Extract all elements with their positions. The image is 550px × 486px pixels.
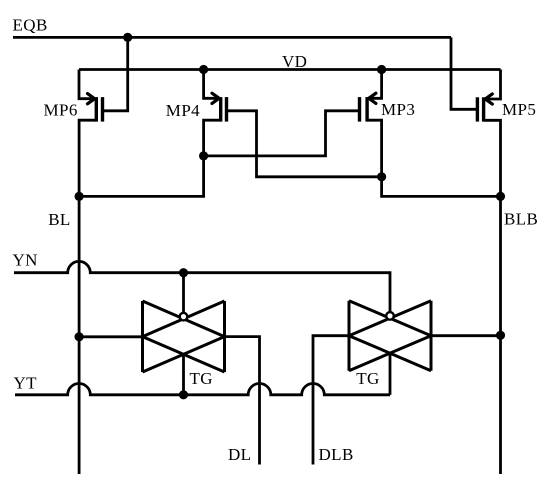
transistor MP5 source arrow: [485, 94, 492, 104]
wire BLB vertical: [499, 196, 502, 474]
svg-text:YT: YT: [14, 373, 38, 392]
transistor MP3 source lead: [372, 70, 382, 99]
transmission gate TG1 left edge: [141, 301, 144, 372]
transmission gate TG2 diagonals: [349, 301, 431, 371]
node EQB junction: [123, 33, 132, 42]
node MP4 drain junction: [199, 151, 208, 160]
TG2 nmos gate stem: [389, 353, 392, 395]
transistor MP3 source arrow: [369, 93, 376, 103]
transmission gate TG1 right edge: [223, 301, 226, 372]
transistor MP5 source lead: [488, 70, 501, 100]
transmission gate TG1 diagonals: [143, 301, 225, 372]
wire BL vertical: [78, 196, 81, 474]
node MP3 drain junction: [377, 172, 386, 181]
wire EQB right drop to MP5 gate: [451, 37, 476, 109]
node BLB junction with MP3 drain wire: [496, 192, 505, 201]
node BL junction with MP4 drain wire: [75, 192, 84, 201]
wire EQB branch to MP6 gate: [103, 37, 128, 110]
transistor MP6 source arrow: [88, 94, 95, 104]
svg-text:TG: TG: [190, 369, 213, 388]
transistor MP3 channel bar: [365, 97, 368, 122]
transmission gate TG2 right edge: [430, 301, 433, 371]
wire TG1 right terminal to DL: [225, 337, 260, 465]
node BLB-TG2 junction: [496, 331, 505, 340]
svg-text:YN: YN: [13, 250, 38, 269]
wire MP4 gate to MP3 drain (cross-couple B): [227, 111, 382, 177]
wire YN horizontal with hop over BL: [14, 261, 390, 313]
svg-text:MP4: MP4: [166, 101, 200, 120]
TG1 nmos gate stem: [182, 354, 185, 394]
svg-text:TG: TG: [356, 369, 379, 388]
svg-text:MP5: MP5: [502, 100, 536, 119]
svg-text:MP6: MP6: [44, 101, 78, 120]
svg-text:MP3: MP3: [381, 100, 415, 119]
transistor MP4 source arrow: [212, 93, 219, 103]
transistor MP5 drain lead: [484, 120, 501, 196]
transistor MP3 drain lead down to BLB: [367, 120, 500, 196]
TG1 pmos bubble: [180, 313, 188, 321]
wire EQB horizontal rail: [13, 36, 451, 39]
TG2 pmos bubble: [386, 312, 394, 320]
svg-text:DLB: DLB: [319, 445, 354, 464]
svg-text:EQB: EQB: [13, 15, 48, 34]
node YT junction: [179, 390, 188, 399]
transmission gate TG2 left edge: [348, 301, 351, 371]
wire YN to TG1 pmos gate: [182, 273, 185, 313]
node VD-MP4 junction: [199, 65, 208, 74]
node VD-MP3 junction: [377, 65, 386, 74]
transistor MP4 drain lead down to BL: [79, 120, 221, 196]
wire YT horizontal with hops over BL, DL, DLB: [15, 383, 390, 394]
wire VD rail: [79, 68, 501, 71]
transistor MP4 gate bar: [225, 97, 228, 122]
transistor MP4 source lead: [204, 70, 217, 99]
transistor MP3 gate bar: [358, 97, 361, 122]
transistor MP5 channel bar: [482, 97, 485, 121]
wire TG2 right terminal to BLB: [431, 334, 501, 337]
wire MP4 drain to MP3 gate (cross-couple A): [204, 111, 360, 156]
wire BL to TG1 left terminal: [79, 335, 142, 338]
svg-text:BLB: BLB: [504, 210, 538, 229]
wire TG2 left terminal to DLB: [313, 336, 349, 465]
transistor MP6 gate bar: [101, 97, 104, 122]
svg-text:DL: DL: [228, 445, 251, 464]
svg-text:BL: BL: [48, 210, 71, 229]
transistor MP6 channel bar: [95, 97, 98, 122]
transistor MP6 source lead: [79, 70, 92, 99]
transistor MP4 channel bar: [219, 97, 222, 122]
svg-text:VD: VD: [282, 52, 307, 71]
transistor MP6 drain lead: [79, 120, 96, 196]
node YN junction: [179, 268, 188, 277]
transistor MP5 gate bar: [476, 97, 479, 121]
node BL-TG1 junction: [75, 332, 84, 341]
